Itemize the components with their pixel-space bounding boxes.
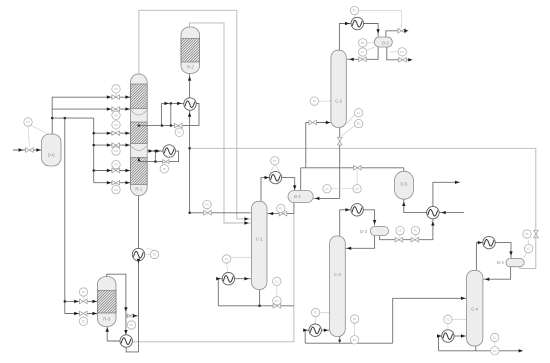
svg-text:FC: FC: [114, 149, 118, 153]
svg-text:R-3: R-3: [103, 317, 111, 322]
svg-text:FC: FC: [114, 163, 118, 167]
svg-text:TC: TC: [153, 253, 157, 257]
svg-text:TC: TC: [225, 257, 229, 261]
svg-text:D-4: D-4: [497, 260, 505, 265]
svg-text:LC: LC: [275, 280, 278, 284]
svg-text:FC: FC: [279, 207, 283, 211]
svg-text:D-5: D-5: [400, 182, 408, 187]
svg-text:LC: LC: [361, 50, 364, 54]
svg-text:C-2: C-2: [335, 99, 343, 104]
svg-text:R-1: R-1: [135, 187, 143, 192]
svg-text:PC: PC: [361, 41, 365, 45]
svg-text:D-6: D-6: [48, 153, 56, 158]
svg-text:FC: FC: [355, 187, 359, 191]
svg-text:D-3: D-3: [360, 229, 368, 234]
svg-text:D-1: D-1: [294, 194, 302, 199]
svg-text:TC: TC: [446, 318, 450, 322]
svg-text:FC: FC: [275, 299, 279, 303]
svg-text:TC: TC: [163, 167, 167, 171]
svg-text:LC: LC: [493, 336, 496, 340]
svg-text:FC: FC: [114, 188, 118, 192]
svg-text:FC: FC: [353, 338, 357, 342]
svg-text:FC: FC: [82, 290, 86, 294]
svg-text:R-2: R-2: [187, 65, 195, 70]
svg-text:FC: FC: [493, 349, 497, 353]
svg-text:FC: FC: [114, 123, 118, 127]
svg-text:C-3: C-3: [334, 272, 342, 277]
svg-text:C-4: C-4: [471, 307, 479, 312]
svg-text:D-2: D-2: [382, 41, 390, 46]
svg-text:FC: FC: [414, 229, 418, 233]
svg-text:FC: FC: [114, 113, 118, 117]
svg-text:TC: TC: [313, 99, 317, 103]
svg-text:PC: PC: [353, 9, 357, 13]
svg-text:FC: FC: [114, 87, 118, 91]
svg-text:TC: TC: [130, 323, 134, 327]
svg-text:LC: LC: [357, 111, 360, 115]
svg-text:LC: LC: [398, 229, 401, 233]
svg-text:FC: FC: [26, 120, 30, 124]
svg-text:TC: TC: [178, 130, 182, 134]
svg-text:LC: LC: [353, 317, 356, 321]
svg-text:FC: FC: [82, 319, 86, 323]
svg-text:FC: FC: [357, 122, 361, 126]
svg-text:TC: TC: [273, 159, 277, 163]
svg-text:FC: FC: [400, 50, 404, 54]
svg-text:FC: FC: [205, 203, 209, 207]
svg-text:C-1: C-1: [256, 237, 264, 242]
svg-text:LC: LC: [325, 187, 328, 191]
svg-text:TC: TC: [314, 311, 318, 315]
svg-text:LC: LC: [527, 247, 530, 251]
svg-text:PC: PC: [525, 232, 529, 236]
